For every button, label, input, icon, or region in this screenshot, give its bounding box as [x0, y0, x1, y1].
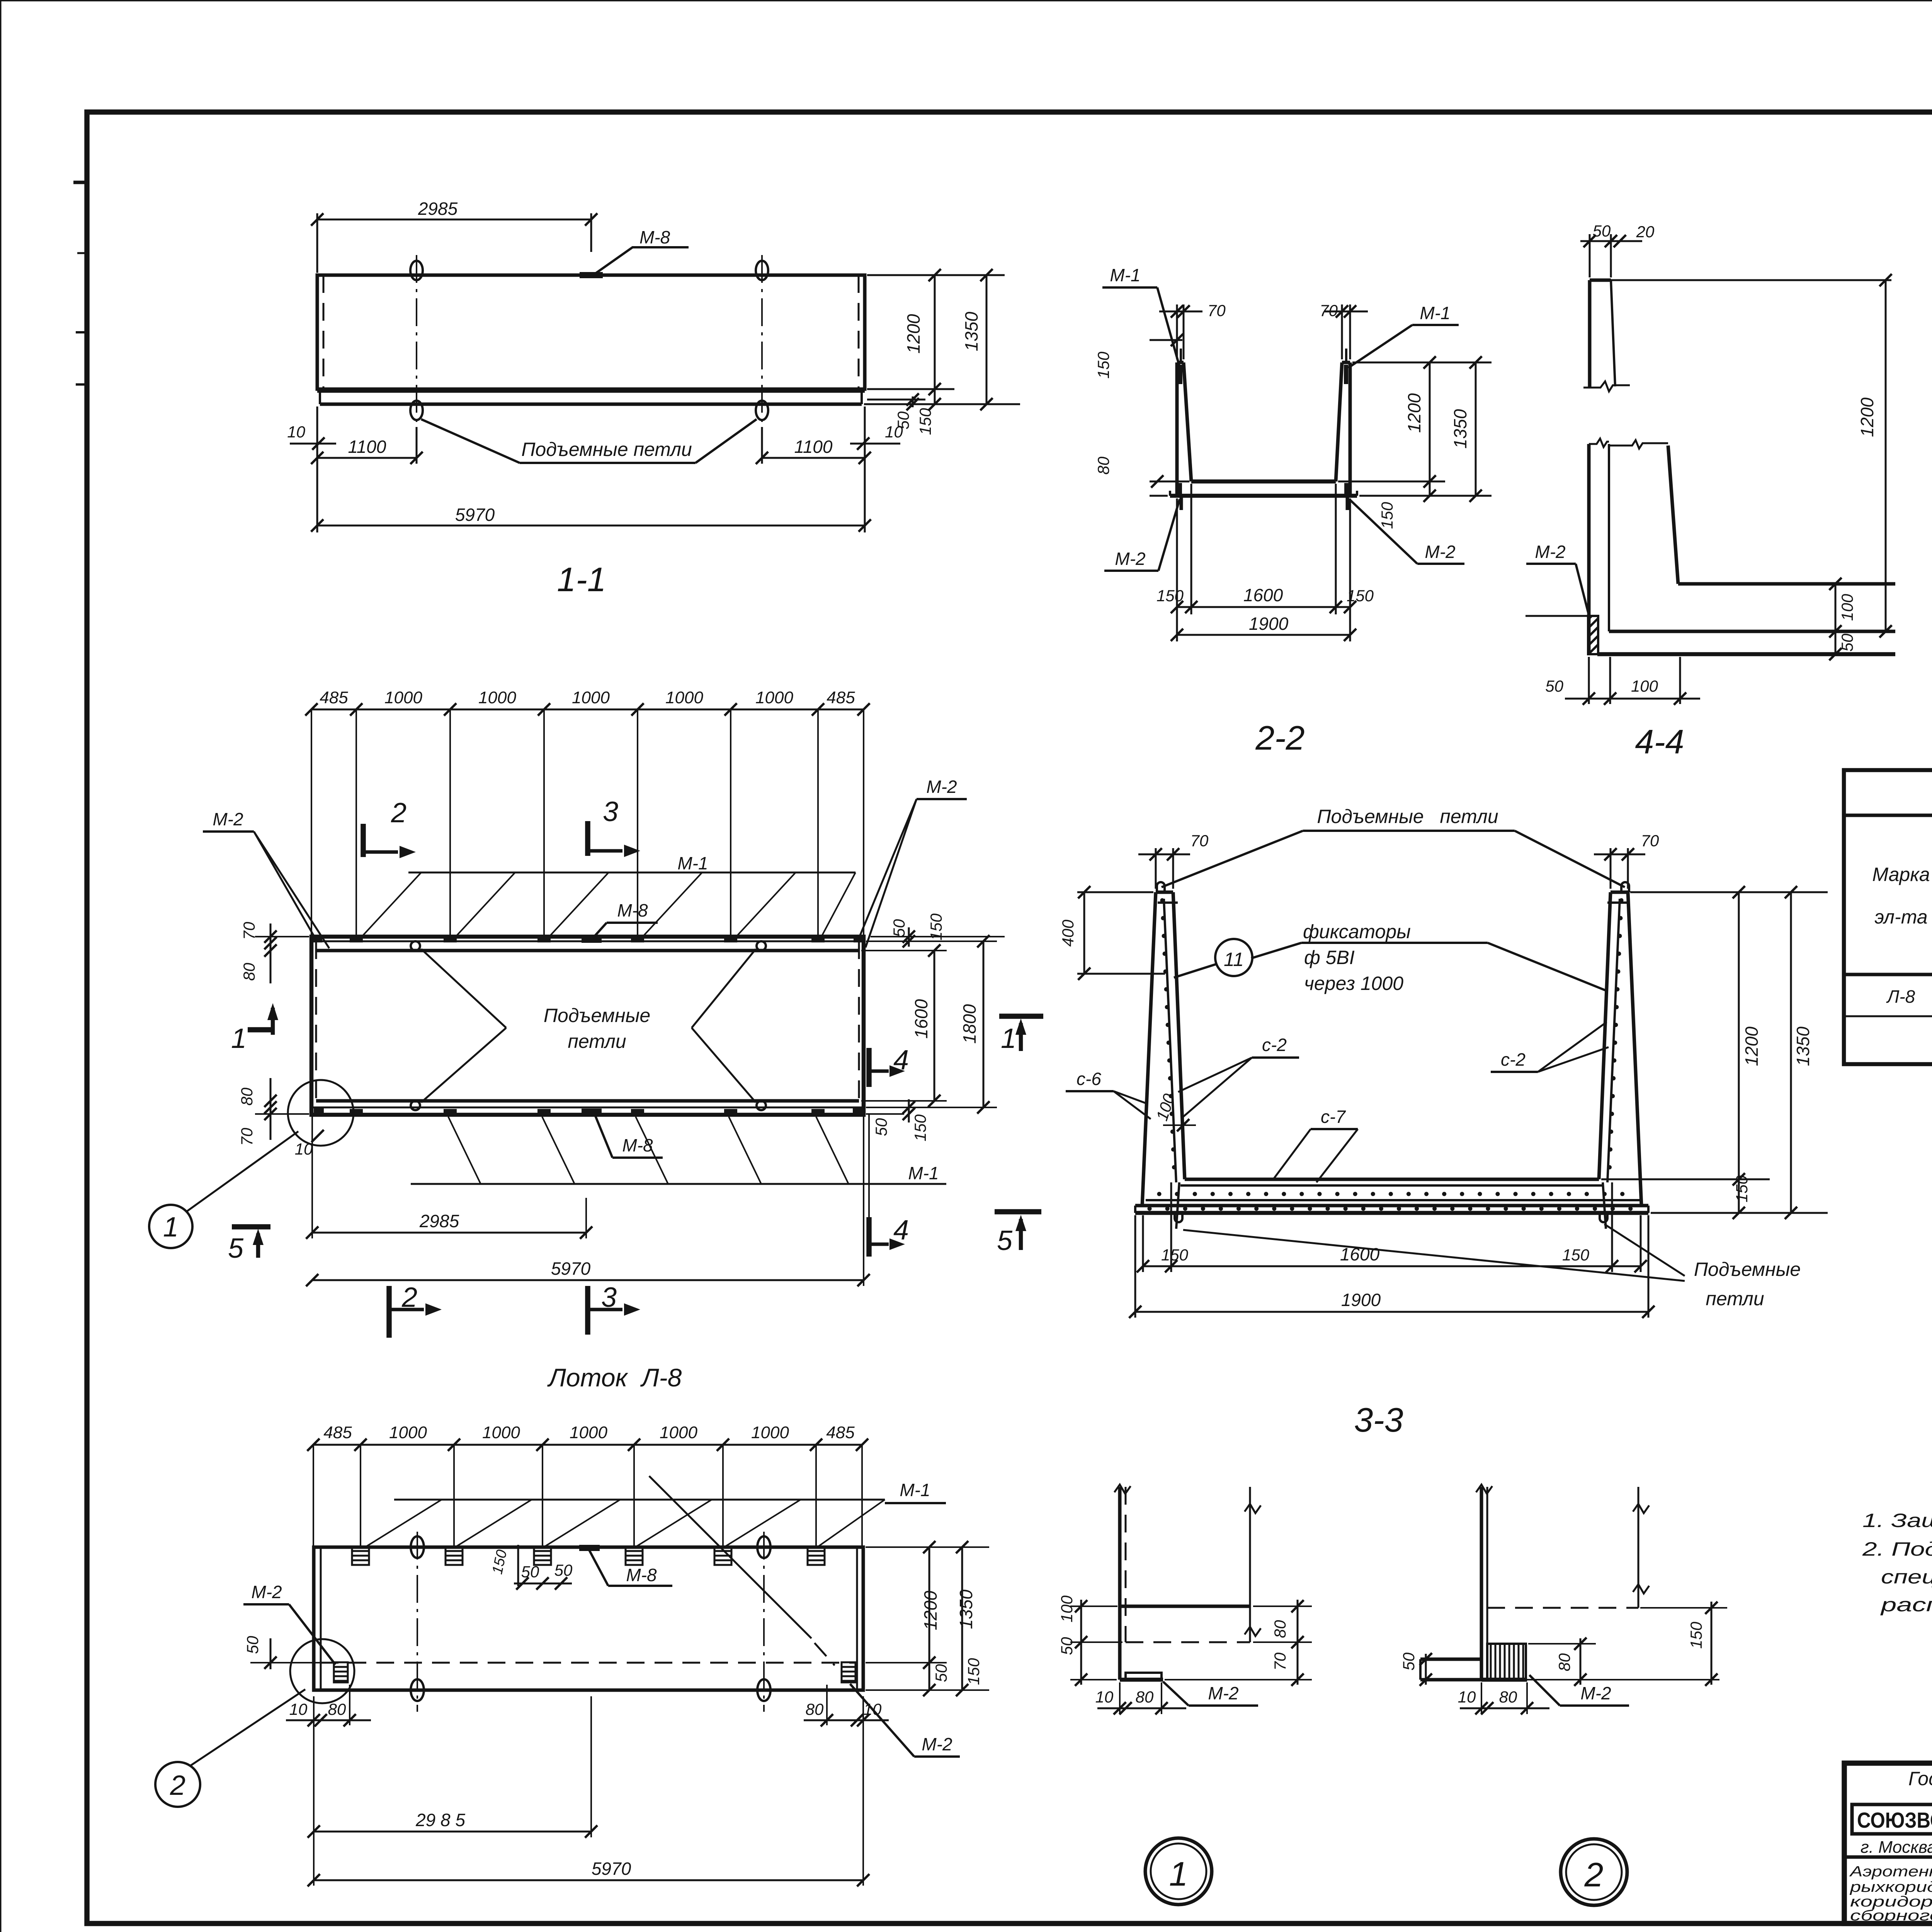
svg-text:4-4: 4-4	[1635, 723, 1684, 761]
svg-text:1200: 1200	[920, 1590, 940, 1630]
3-3 right extension lines	[1601, 892, 1828, 1213]
detail 2 dim 150	[1640, 1602, 1727, 1686]
5-5 M-8 callout	[589, 1549, 672, 1586]
svg-text:5: 5	[228, 1233, 244, 1264]
table 2 headers	[1872, 820, 1932, 965]
section mark 4 top right	[869, 1045, 909, 1087]
lifting loops label (plan)	[421, 949, 756, 1102]
plan top wall lines	[311, 941, 864, 951]
title block grid	[1844, 1763, 1932, 1923]
svg-text:50: 50	[1400, 1652, 1418, 1670]
dimension 400 (3-3 left)	[1059, 886, 1165, 980]
svg-text:Подъемные: Подъемные	[544, 1005, 650, 1026]
M-8 plates plan	[582, 936, 602, 1115]
svg-text:10: 10	[864, 1700, 882, 1718]
note 1	[1862, 1510, 1932, 1531]
svg-text:М-1: М-1	[677, 853, 708, 873]
M-1 plate right (2-2)	[1344, 349, 1348, 384]
label 10 near corner	[295, 1130, 324, 1158]
svg-text:50: 50	[521, 1563, 539, 1581]
5-5 body	[314, 1547, 863, 1690]
svg-text:М-8: М-8	[626, 1565, 657, 1585]
corner M-2 plates plan	[313, 937, 863, 1114]
node callout 2 (5-5)	[155, 1689, 305, 1807]
svg-text:М-2: М-2	[922, 1734, 952, 1754]
5-5 dimension 2985	[308, 1696, 597, 1838]
3-3 fixators label	[1251, 921, 1607, 994]
detail 1 lip top line	[1120, 1605, 1250, 1608]
svg-text:М-1: М-1	[1420, 303, 1450, 323]
svg-text:М-2: М-2	[1535, 542, 1565, 562]
svg-text:10: 10	[289, 1700, 308, 1718]
node circle 1 (detail)	[1145, 1838, 1212, 1905]
title 1-1	[557, 560, 606, 599]
svg-text:М-2: М-2	[1580, 1683, 1611, 1703]
M-8 plate on top edge	[580, 272, 603, 278]
detail 2 M-2 callout	[1529, 1675, 1629, 1706]
dimension 50 (4-4 top)	[1580, 222, 1655, 277]
plan dimension 2985	[306, 1117, 592, 1239]
svg-text:1350: 1350	[1450, 409, 1470, 449]
city and year	[1861, 1838, 1932, 1857]
3-3 loop bottom left	[1175, 1182, 1182, 1229]
dimension 150 1600 150 (3-3)	[1137, 1244, 1647, 1272]
svg-text:50: 50	[890, 919, 908, 937]
svg-text:2: 2	[170, 1770, 185, 1801]
M-1 callout left (2-2)	[1102, 265, 1180, 367]
svg-text:Лоток Л-8: Лоток Л-8	[547, 1363, 682, 1392]
5-5 bottom dims 80 10 right	[804, 1685, 889, 1726]
svg-text:80: 80	[328, 1700, 346, 1718]
svg-text:5970: 5970	[592, 1859, 631, 1879]
svg-text:11: 11	[1224, 949, 1244, 970]
M-2 callout right (2-2)	[1349, 499, 1464, 564]
svg-text:70: 70	[1271, 1652, 1289, 1670]
svg-text:1000: 1000	[482, 1423, 520, 1442]
plan left small dims 70 80 top	[240, 922, 309, 983]
5-5 detail circle left corner	[290, 1639, 354, 1703]
5-5 M-2 plate right	[842, 1662, 855, 1682]
5-5 M-2 callout left	[243, 1582, 335, 1665]
5-5 loops top	[411, 1536, 770, 1558]
M-2 plate left (2-2)	[1178, 483, 1182, 510]
svg-text:1900: 1900	[1341, 1290, 1381, 1310]
svg-text:Госстрой СССР: Госстрой СССР	[1908, 1768, 1932, 1789]
svg-text:100: 100	[1631, 677, 1658, 695]
svg-text:80: 80	[1271, 1620, 1289, 1638]
svg-text:1350: 1350	[956, 1589, 976, 1629]
5-5 hidden slab line	[321, 1662, 857, 1664]
svg-text:1350: 1350	[961, 311, 981, 351]
svg-text:10: 10	[295, 1140, 313, 1158]
svg-text:2985: 2985	[419, 1211, 459, 1231]
svg-text:1200: 1200	[1857, 397, 1877, 437]
svg-text:2. Подъем лотка за верхние пет: 2. Подъем лотка за верхние петли осущест…	[1862, 1538, 1932, 1560]
dimension 50 (1-1 right)	[894, 393, 919, 429]
svg-text:100: 100	[1058, 1595, 1076, 1622]
M-8 callout top (plan)	[593, 900, 658, 938]
svg-text:150: 150	[1347, 587, 1374, 605]
5-5 left dim 50	[243, 1636, 332, 1669]
3-3 loop top right	[1621, 882, 1629, 892]
svg-text:70: 70	[1320, 301, 1338, 320]
view 1-1 body outline	[317, 275, 865, 389]
logo box SOYUZVODOKANALPROEKT	[1852, 1804, 1932, 1834]
svg-text:50: 50	[872, 1118, 890, 1136]
dimension 1350 (2-2)	[1450, 356, 1482, 502]
svg-text:петли: петли	[1706, 1288, 1764, 1310]
svg-text:150: 150	[1562, 1246, 1590, 1264]
svg-text:г. Москва: г. Москва	[1861, 1838, 1932, 1857]
M-1 plate left (2-2)	[1178, 349, 1182, 384]
svg-text:485: 485	[320, 688, 348, 707]
lifting loop top left	[410, 261, 423, 280]
3-3 wall top hooks	[1158, 901, 1627, 904]
svg-text:1800: 1800	[959, 1004, 980, 1044]
title 2-2	[1255, 719, 1304, 757]
svg-text:150: 150	[1161, 1246, 1189, 1264]
3-3 right wall mesh (s-2)	[1607, 899, 1621, 1182]
svg-text:5970: 5970	[455, 505, 495, 525]
loop centerline left	[416, 255, 417, 427]
svg-text:70: 70	[1207, 301, 1226, 320]
plan title Lotok L-8	[547, 1363, 682, 1392]
2-2 floor	[1191, 480, 1336, 484]
dimension 1350 (3-3)	[1785, 886, 1813, 1219]
section mark 4 bottom right	[869, 1215, 909, 1257]
5-5 M-1 callout	[365, 1480, 946, 1547]
lifting loop top right	[756, 261, 768, 280]
svg-text:1: 1	[163, 1212, 179, 1243]
svg-text:2985: 2985	[418, 199, 458, 219]
dimension 150 (2-2) left small	[1094, 333, 1183, 379]
svg-text:Марка: Марка	[1872, 864, 1930, 885]
detail 2 dim 80	[1528, 1638, 1596, 1686]
detail 1 break line right	[1245, 1487, 1261, 1642]
s-7 callout	[1272, 1107, 1358, 1182]
dimension 2985 (1-1 top)	[311, 199, 597, 273]
svg-text:М-2: М-2	[926, 777, 957, 797]
svg-text:80: 80	[1136, 1688, 1154, 1706]
svg-text:1000: 1000	[572, 688, 610, 707]
svg-text:50: 50	[554, 1561, 573, 1579]
svg-text:150: 150	[489, 1548, 510, 1576]
svg-text:1600: 1600	[911, 999, 931, 1039]
detail 1 bottom dim 10 80	[1095, 1682, 1186, 1714]
svg-text:Аэротенки-смесители четы-: Аэротенки-смесители четы-	[1849, 1864, 1932, 1880]
svg-text:с-2: с-2	[1262, 1035, 1287, 1055]
svg-text:10: 10	[287, 423, 305, 441]
table 2 data row	[1886, 986, 1932, 1007]
svg-text:5: 5	[997, 1225, 1013, 1256]
svg-text:1000: 1000	[570, 1423, 607, 1442]
5-5 M-2 callout right	[850, 1684, 960, 1757]
svg-text:М-2: М-2	[251, 1582, 282, 1602]
dimension 150 1600 150 (2-2)	[1156, 585, 1374, 613]
svg-text:М-8: М-8	[622, 1135, 653, 1155]
title 4-4	[1635, 723, 1684, 761]
4-4 top fragment break	[1583, 381, 1630, 391]
plan outline	[311, 937, 864, 1115]
extension line for mark 4	[868, 1115, 870, 1217]
svg-text:4: 4	[893, 1215, 909, 1246]
dimension 70 right (2-2)	[1320, 301, 1368, 359]
5-5 M-1 plates hatched	[352, 1547, 825, 1565]
M-2 callout left (2-2)	[1104, 499, 1180, 571]
dimension 100 50 (4-4 right)	[1829, 578, 1856, 660]
note 2 line 2	[1881, 1566, 1932, 1588]
M-1 callout bottom (plan)	[411, 1117, 946, 1184]
detail 2 bottom dim 10 80	[1458, 1682, 1549, 1714]
svg-text:с-7: с-7	[1321, 1107, 1346, 1127]
svg-text:М-8: М-8	[639, 227, 670, 247]
svg-text:3: 3	[603, 796, 618, 827]
svg-text:специальной траверсой, не допу: специальной траверсой, не допуская перед…	[1881, 1566, 1932, 1588]
svg-text:1200: 1200	[903, 314, 923, 354]
M-1 callout top (plan)	[363, 853, 855, 935]
svg-text:150: 150	[911, 1114, 929, 1141]
3-3 slab bottom band	[1135, 1206, 1648, 1213]
section mark 2 bottom	[389, 1282, 442, 1338]
svg-text:485: 485	[827, 688, 855, 707]
svg-text:20: 20	[1636, 223, 1655, 241]
3-3 floor mesh (s-7)	[1159, 1185, 1627, 1194]
svg-text:50: 50	[1593, 222, 1611, 240]
3-3 floor top	[1185, 1178, 1599, 1181]
svg-text:1000: 1000	[384, 688, 422, 707]
detail 2 hidden line top of slab	[1487, 1607, 1638, 1609]
section mark 3 bottom	[588, 1282, 640, 1335]
svg-text:50: 50	[1545, 677, 1563, 695]
svg-text:2: 2	[391, 798, 406, 828]
svg-text:80: 80	[1094, 456, 1112, 474]
svg-text:2-2: 2-2	[1255, 719, 1304, 757]
svg-text:М-1: М-1	[908, 1163, 939, 1183]
M-1 plates bottom edge	[350, 1109, 825, 1115]
detail 2 bottom line	[1481, 1678, 1719, 1682]
svg-text:3: 3	[601, 1282, 617, 1313]
section mark 3 top	[588, 796, 640, 857]
project description	[1849, 1864, 1932, 1924]
label lifting loops (1-1)	[421, 419, 757, 463]
view 1-1 hidden edge left	[323, 275, 325, 389]
svg-text:80: 80	[1499, 1688, 1517, 1706]
section mark 5 right	[995, 1212, 1041, 1256]
s-2 callout right	[1491, 1022, 1609, 1072]
dimension 1100 right	[756, 427, 871, 464]
5-5 small dims 150 50 50	[489, 1545, 573, 1590]
svg-text:3-3: 3-3	[1354, 1401, 1403, 1439]
fold marks	[73, 182, 87, 384]
svg-text:1000: 1000	[751, 1423, 789, 1442]
dimension 1200 (4-4 right)	[1857, 274, 1892, 638]
plan right dims 1600 1800	[861, 935, 1005, 1114]
5-5 M-8 plate	[579, 1545, 600, 1551]
dimension 1350 (1-1 right)	[961, 269, 993, 410]
dimension 1200 and 150 (3-3)	[1733, 886, 1762, 1219]
plan dimension 5970	[306, 1117, 870, 1286]
section mark 5 left	[228, 1227, 270, 1264]
dimension 1200 and 150 (2-2)	[1378, 356, 1436, 529]
s-6 callout	[1066, 1069, 1151, 1119]
svg-text:70: 70	[240, 922, 258, 940]
3-3 bottom extension lines	[1135, 1182, 1648, 1318]
extension line left of plate (4-4)	[1526, 615, 1588, 617]
svg-text:1. Защитный слой бетона - 20мм: 1. Защитный слой бетона - 20мм.	[1862, 1510, 1932, 1531]
extension lines right of 2-2	[1338, 362, 1492, 496]
svg-text:СОЮЗВОДОКАНАЛПРОЕКТ: СОЮЗВОДОКАНАЛПРОЕКТ	[1857, 1808, 1932, 1833]
dimension 70 left (2-2)	[1159, 301, 1226, 359]
svg-text:М-2: М-2	[213, 809, 243, 829]
svg-text:1000: 1000	[478, 688, 516, 707]
dimension 10 right	[850, 423, 903, 450]
svg-text:50: 50	[243, 1636, 262, 1654]
3-3 lifting loops label bottom	[1183, 1224, 1801, 1310]
svg-text:1-1: 1-1	[557, 560, 606, 599]
svg-text:ф 5ВI: ф 5ВI	[1304, 947, 1355, 968]
section mark 1 left	[231, 1003, 278, 1054]
svg-text:М-1: М-1	[1110, 265, 1140, 285]
4-4 floor top	[1678, 582, 1895, 586]
dimension 80 (2-2) left small	[1094, 456, 1189, 496]
lifting loop bottom left	[410, 401, 423, 420]
svg-text:1000: 1000	[389, 1423, 427, 1442]
svg-text:1200: 1200	[1742, 1026, 1762, 1066]
3-3 slab mesh (s-6)	[1146, 1200, 1640, 1209]
detail 1 M-2 plate	[1126, 1673, 1162, 1680]
svg-text:фиксаторы: фиксаторы	[1303, 921, 1411, 942]
svg-text:эл-та: эл-та	[1874, 906, 1927, 928]
plan right small dims 50 150 top	[890, 913, 945, 947]
svg-text:50: 50	[1838, 633, 1856, 651]
4-4 lower fragment wall	[1589, 439, 1609, 655]
svg-text:рыхкоридорные с размерами: рыхкоридорные с размерами	[1850, 1879, 1932, 1895]
3-3 loop bottom right	[1600, 1182, 1607, 1229]
dimension 1900 (2-2)	[1171, 614, 1356, 641]
svg-text:распора на стенки лотка.: распора на стенки лотка.	[1880, 1594, 1932, 1616]
svg-text:1350: 1350	[1793, 1026, 1813, 1066]
plan top extension lines	[311, 709, 864, 937]
dimension 70 left (3-3)	[1138, 832, 1209, 889]
svg-text:150: 150	[964, 1658, 983, 1685]
title 3-3	[1354, 1401, 1403, 1439]
svg-text:1000: 1000	[665, 688, 703, 707]
svg-text:5970: 5970	[551, 1259, 591, 1279]
svg-text:4: 4	[893, 1045, 909, 1076]
detail circle at bottom left corner	[288, 1080, 354, 1146]
plan left small dims 80 70 bottom	[238, 1078, 309, 1146]
svg-text:1100: 1100	[794, 437, 833, 457]
svg-text:485: 485	[323, 1423, 352, 1442]
section mark 2 top	[363, 798, 416, 858]
5-5 loop centerlines	[417, 1532, 764, 1712]
loop centerline right	[761, 255, 763, 427]
detail 1 wall verticals	[1114, 1485, 1131, 1680]
3-3 loop top left	[1157, 882, 1165, 892]
plan hidden end edges	[316, 941, 859, 1107]
svg-text:150: 150	[1733, 1175, 1751, 1202]
svg-text:150: 150	[1687, 1621, 1705, 1649]
svg-text:1200: 1200	[1404, 393, 1424, 433]
5-5 loops bottom	[411, 1679, 770, 1701]
dimension 5970 (1-1 bottom)	[311, 406, 871, 532]
svg-text:70: 70	[238, 1128, 256, 1146]
detail 2 left stub	[1420, 1659, 1481, 1680]
view 1-1 hidden edge right	[858, 275, 860, 389]
svg-text:50: 50	[1058, 1637, 1076, 1655]
detail 2 M-2 plate hatched	[1487, 1644, 1526, 1680]
4-4 top fragment wall	[1590, 280, 1891, 388]
svg-text:1600: 1600	[1340, 1244, 1380, 1264]
svg-text:2: 2	[1584, 1855, 1604, 1894]
dimension 50 100 (4-4 bottom)	[1545, 657, 1700, 705]
5-5 extension lines	[313, 1445, 862, 1547]
M-1 callout right (2-2)	[1348, 303, 1459, 368]
M-2 plate right (2-2)	[1344, 483, 1349, 510]
svg-text:М-1: М-1	[900, 1480, 930, 1500]
2-2 left wall	[1177, 362, 1191, 496]
5-5 long stray diagonal	[649, 1476, 835, 1665]
svg-text:сборного железобетона.: сборного железобетона.	[1850, 1908, 1932, 1924]
svg-text:1000: 1000	[755, 688, 793, 707]
dimension 1900 (3-3)	[1129, 1290, 1655, 1318]
M-8 callout bottom (plan)	[595, 1115, 663, 1158]
svg-text:10: 10	[1095, 1688, 1114, 1706]
svg-text:1900: 1900	[1249, 614, 1289, 634]
detail 2 left dim 50	[1400, 1652, 1432, 1686]
dimension 70 right (3-3)	[1594, 832, 1659, 889]
svg-text:150: 150	[1378, 502, 1396, 529]
detail 1 left dims 100 50	[1058, 1595, 1122, 1686]
svg-text:Подъемные петли: Подъемные петли	[1317, 806, 1498, 827]
M-2 plate hatched (4-4)	[1588, 616, 1598, 654]
svg-text:150: 150	[916, 408, 934, 435]
svg-text:70: 70	[1190, 832, 1209, 850]
svg-text:50: 50	[894, 411, 912, 429]
view 1-1 bottom slab lip	[317, 392, 865, 404]
M-8 callout	[592, 227, 689, 276]
svg-text:1600: 1600	[1243, 585, 1283, 605]
5-5 dimension 5970	[308, 1696, 869, 1886]
plan bottom wall lines	[311, 1101, 864, 1107]
lifting loop bottom right	[756, 401, 768, 420]
svg-text:485: 485	[826, 1423, 855, 1442]
5-5 M-2 plate left	[334, 1662, 348, 1682]
4-4 wall inner slanted face	[1609, 440, 1678, 584]
table 2 grid	[1844, 770, 1932, 1064]
svg-text:100: 100	[1838, 594, 1856, 621]
M-2 callout top left (plan)	[203, 809, 329, 948]
svg-text:70: 70	[1641, 832, 1659, 850]
svg-text:80: 80	[1555, 1653, 1573, 1671]
detail 2 wall verticals	[1476, 1485, 1492, 1680]
dimension 1100 left	[311, 427, 423, 464]
M-2 callout (4-4)	[1526, 542, 1590, 618]
svg-text:петли: петли	[568, 1031, 626, 1052]
svg-text:М-2: М-2	[1425, 542, 1455, 562]
svg-text:с-2: с-2	[1501, 1049, 1526, 1070]
label 100 (3-3)	[1153, 1091, 1196, 1131]
svg-text:1100: 1100	[348, 437, 386, 457]
dimension 1200 (1-1 right)	[903, 269, 941, 435]
s-2 callout left	[1178, 1035, 1299, 1117]
svg-text:Подъемные: Подъемные	[1694, 1259, 1801, 1280]
extension lines right of 1-1	[864, 275, 1020, 404]
svg-text:Л-8: Л-8	[1886, 986, 1915, 1007]
svg-text:80: 80	[240, 963, 258, 981]
note 2 line 3	[1880, 1594, 1932, 1616]
svg-text:29 8 5: 29 8 5	[415, 1810, 465, 1830]
